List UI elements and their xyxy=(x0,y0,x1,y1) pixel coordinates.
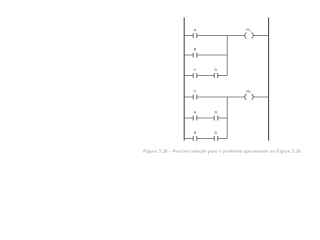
svg-text:B: B xyxy=(194,46,197,51)
svg-text:D: D xyxy=(215,109,218,114)
svg-text:C: C xyxy=(194,88,197,93)
svg-text:Figura 5.28 – Possível solução: Figura 5.28 – Possível solução para o pr… xyxy=(142,148,302,153)
svg-text:C: C xyxy=(194,67,197,72)
svg-text:R1: R1 xyxy=(246,27,251,33)
svg-text:B: B xyxy=(194,130,197,135)
svg-text:A: A xyxy=(194,27,197,32)
svg-text:A: A xyxy=(194,109,197,114)
svg-text:R2: R2 xyxy=(246,88,251,94)
svg-text:D: D xyxy=(215,130,218,135)
svg-text:D: D xyxy=(215,67,218,72)
